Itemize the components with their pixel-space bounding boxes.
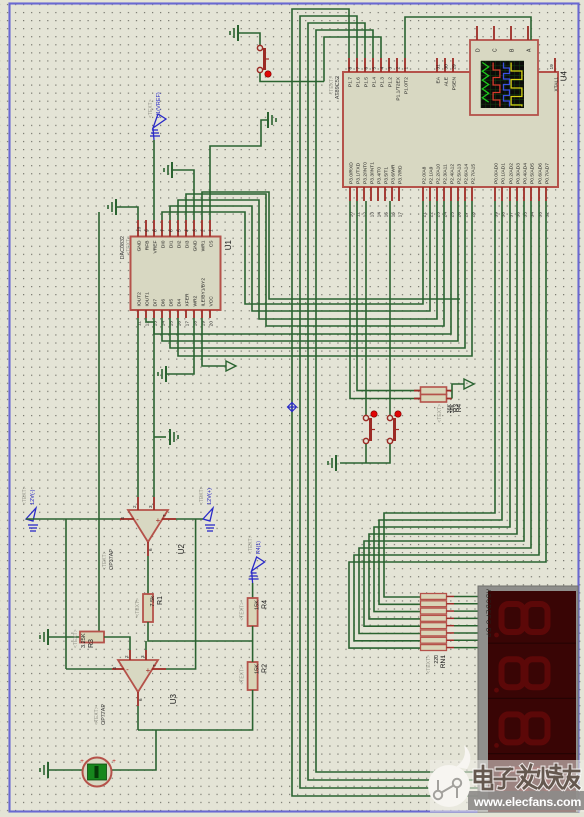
svg-text:P3.4/T0: P3.4/T0 — [376, 167, 382, 184]
wire U1 DI bottom pin x=154 to U4 P2 x=451 — [154, 201, 451, 334]
svg-text:<TEXT>: <TEXT> — [22, 486, 28, 505]
U3 pin 7 stub — [152, 668, 166, 670]
svg-text:23: 23 — [435, 212, 441, 218]
wire U1 DI top pin x=178 to U4 P2 x=437 — [178, 200, 437, 319]
svg-text:7: 7 — [152, 664, 157, 667]
svg-text:12V(+): 12V(+) — [207, 488, 213, 505]
svg-text:P1.7: P1.7 — [347, 77, 353, 87]
svg-text:<TEXT>: <TEXT> — [240, 602, 246, 621]
wire U1 pin19 to arrow terminal — [202, 318, 226, 366]
wire U2 pin7 to 12V(+) — [176, 518, 203, 520]
wire 12V(-) to U2 pin4 — [26, 518, 120, 520]
wire U1 DI top pin x=186 to U4 P2 x=444 — [186, 194, 444, 326]
wire U4 P0.7 to RN1 resistor 8 — [349, 201, 546, 648]
wire negative rail down to U3 pin4 — [65, 519, 67, 669]
svg-text:5: 5 — [371, 67, 377, 70]
wire R2 to U3 output — [138, 690, 253, 730]
U4 pin 6 (P1.5) stub — [364, 58, 366, 72]
svg-text:3: 3 — [192, 229, 198, 232]
wire battery+ riser — [112, 730, 157, 770]
wire U1 DI top pin x=170 to U4 P2 x=430 — [170, 201, 430, 311]
svg-text:WR2: WR2 — [192, 295, 198, 306]
svg-text:U3: U3 — [169, 693, 178, 704]
U4 pin 11 (P3.1/TXD) stub — [356, 187, 358, 201]
U1 pin 5 (DI2) stub — [177, 220, 179, 237]
wire U1 DI top pin x=162 to U4 P2 x=423 — [162, 201, 423, 304]
microcontroller U4 body (AT89C52) — [343, 72, 558, 187]
U4 pin 31 (EA) stub — [436, 58, 438, 72]
svg-text:8: 8 — [347, 67, 353, 70]
svg-text:4: 4 — [379, 67, 385, 70]
svg-text:U2: U2 — [177, 543, 186, 554]
U3 pin 4 stub — [112, 668, 124, 670]
svg-text:25: 25 — [449, 212, 455, 218]
wire vertical x99 — [98, 212, 100, 637]
U4 pin 29 (PSEN) stub — [452, 58, 454, 72]
svg-text:P1.0/T2: P1.0/T2 — [403, 77, 409, 94]
svg-text:<TEXT>: <TEXT> — [329, 76, 335, 95]
wire P3.0 to resistor R6 — [350, 201, 421, 399]
svg-text:P1.2: P1.2 — [387, 77, 393, 87]
U4 pin 36 (P0.3/AD3) stub — [516, 187, 518, 201]
display pin stub 2 — [478, 603, 487, 605]
oscilloscope channel B pin stub — [510, 26, 512, 40]
oscilloscope channel C pin stub — [493, 26, 495, 40]
RN1 resistor element 7 — [421, 637, 447, 643]
svg-text:15: 15 — [383, 212, 389, 218]
svg-text:ABCDEFG DP: ABCDEFG DP — [485, 589, 492, 638]
wire U4 P1.5 long bus column x308 — [308, 23, 478, 780]
svg-text:P2.5/A13: P2.5/A13 — [456, 164, 462, 184]
wire U4 P1.6 long bus column x300 — [300, 16, 478, 788]
wire G6 to U1 pin18 — [166, 318, 194, 374]
wire U1 pin2 WR1 route — [202, 192, 460, 299]
svg-text:7: 7 — [160, 229, 166, 232]
svg-text:P3.0/RXD: P3.0/RXD — [348, 162, 354, 184]
svg-text:36K: 36K — [450, 403, 456, 413]
wire node row to R2 — [252, 641, 254, 662]
ground G5 — [170, 429, 178, 445]
display digit digit 4 — [502, 770, 524, 798]
U2 pin 6 stub — [147, 542, 149, 556]
svg-text:8: 8 — [152, 229, 158, 232]
oscilloscope channel A pin stub — [527, 26, 529, 40]
wire R3 to U3 pin2 — [104, 637, 130, 650]
oscilloscope trace yellow channel A — [511, 63, 522, 107]
resistor R6 — [421, 395, 447, 403]
U4 pin 35 (P0.4/AD4) stub — [523, 187, 525, 201]
svg-text:DI6: DI6 — [160, 299, 166, 307]
svg-text:R4(1): R4(1) — [256, 541, 262, 554]
U1 pin 20 (VCC) stub — [209, 310, 211, 318]
watermark chinese text 电子发烧友 — [475, 765, 579, 789]
wire P3.6 to button B3 — [389, 201, 391, 415]
svg-text:DI2: DI2 — [176, 240, 182, 248]
U4 pin 1 (P1.0/T2) stub — [404, 58, 406, 72]
svg-text:7: 7 — [355, 67, 361, 70]
U1 pin 16 (DI4) stub — [177, 310, 179, 318]
svg-text:P2.2/A10: P2.2/A10 — [435, 164, 441, 184]
svg-text:P2.6/A14: P2.6/A14 — [463, 164, 469, 184]
ground G8 — [40, 629, 48, 645]
svg-text:7: 7 — [162, 514, 167, 517]
wire RN1 element 5 to display — [454, 625, 478, 627]
svg-text:RFB: RFB — [144, 241, 150, 251]
wire G9 to battery — [48, 769, 83, 771]
resistor R2 — [248, 662, 258, 690]
svg-text:C: C — [492, 48, 498, 52]
svg-text:14: 14 — [376, 212, 382, 218]
svg-text:1: 1 — [208, 229, 214, 232]
wire P3.2 to button B2 — [365, 201, 367, 415]
svg-text:<TEXT>: <TEXT> — [240, 666, 246, 685]
U1 pin 10 (GND) stub — [137, 220, 139, 237]
svg-text:+: + — [156, 516, 161, 525]
svg-text:4: 4 — [120, 517, 125, 520]
svg-text:3: 3 — [387, 67, 393, 70]
U2 pin 4 stub — [120, 518, 134, 520]
U4 pin 39 (P0.0/AD0) stub — [494, 187, 496, 201]
output arrow terminal A1 — [226, 361, 236, 371]
op-amp U3 body — [118, 660, 158, 692]
RN1 resistor element 2 — [421, 601, 447, 607]
svg-text:24: 24 — [442, 212, 448, 218]
svg-text:U4: U4 — [560, 70, 569, 81]
display digit separator — [488, 753, 576, 755]
svg-text:<TEXT>: <TEXT> — [102, 551, 108, 570]
U1 pin 15 (DI5) stub — [169, 310, 171, 318]
U4 pin 15 (P3.5/T1) stub — [384, 187, 386, 201]
svg-text:P0.7/AD7: P0.7/AD7 — [544, 163, 550, 184]
svg-text:37: 37 — [508, 212, 514, 218]
wire U2 out to R1 — [147, 556, 149, 594]
wire U4 P1.7 long bus column x292 — [292, 9, 478, 796]
svg-text:2: 2 — [395, 67, 401, 70]
svg-text:P0.2/AD2: P0.2/AD2 — [508, 163, 514, 184]
wire U1 DI bottom pin x=162 to U4 P2 x=458 — [162, 201, 458, 341]
svg-text:-: - — [136, 515, 139, 524]
U4 pin 17 (P3.7/RD) stub — [398, 187, 400, 201]
U1 pin 3 (GND) stub — [193, 220, 195, 237]
svg-text:26: 26 — [456, 212, 462, 218]
7-segment display panel — [488, 591, 576, 812]
svg-text:+: + — [112, 758, 116, 765]
svg-text:7.5k: 7.5k — [150, 596, 156, 607]
svg-text:2: 2 — [200, 229, 206, 232]
svg-text:ILE/BY1/BY2: ILE/BY1/BY2 — [200, 278, 206, 307]
display digit separator — [488, 697, 576, 699]
RN1 resistor element 5 — [421, 623, 447, 629]
U2 pin 3 stub — [153, 497, 155, 510]
power terminal 12V(-) — [26, 508, 38, 531]
wire RN1 element 2 to display — [454, 603, 478, 605]
svg-text:10: 10 — [136, 226, 142, 232]
push button B3 — [387, 415, 399, 443]
wire G4 to U1 pin3 — [172, 170, 194, 220]
U4 pin 34 (P0.5/AD5) stub — [530, 187, 532, 201]
svg-text:27: 27 — [463, 212, 469, 218]
svg-text:+: + — [80, 758, 84, 765]
svg-text:R4: R4 — [456, 404, 463, 413]
svg-text:P1.6: P1.6 — [355, 77, 361, 87]
U1 pin 11 (IOUT2) stub — [137, 310, 139, 318]
svg-text:P0.1/AD1: P0.1/AD1 — [500, 163, 506, 184]
svg-text:<TEXT>: <TEXT> — [248, 535, 254, 554]
svg-text:<TEXT>: <TEXT> — [135, 598, 141, 617]
U4 pin 3 (P1.2) stub — [388, 58, 390, 72]
display digit digit 2 — [502, 659, 524, 687]
U4 pin 37 (P0.2/AD2) stub — [509, 187, 511, 201]
wire ground G2 to U1 pin1 — [210, 120, 268, 220]
svg-text:6: 6 — [168, 229, 174, 232]
R5 right lead — [447, 390, 453, 392]
7-segment display module frame — [478, 586, 578, 812]
wire U4 P1.4 long bus column x316 — [316, 30, 478, 772]
battery voltage source BAT1 — [83, 758, 112, 787]
wire U4 P0.4 to RN1 resistor 5 — [364, 201, 524, 626]
U1 pin 7 (DI0) stub — [161, 220, 163, 237]
svg-text:IOUT1: IOUT1 — [144, 292, 150, 307]
svg-text:6: 6 — [138, 698, 143, 701]
svg-text:AT89C52: AT89C52 — [335, 76, 341, 99]
wire U1 pin11 to U2 pin2 — [137, 318, 139, 497]
U1 pin 6 (DI1) stub — [169, 220, 171, 237]
svg-text:RN1: RN1 — [440, 655, 447, 669]
wire P3.1 to resistor R5 — [357, 201, 421, 391]
wire U4 P0.3 to RN1 resistor 4 — [369, 201, 517, 619]
U4 pin 5 (P1.4) stub — [372, 58, 374, 72]
svg-text:21: 21 — [421, 212, 427, 218]
svg-text:3: 3 — [148, 505, 153, 508]
U1 pin 18 (WR2) stub — [193, 310, 195, 318]
wire RN1 element 6 to display — [454, 632, 478, 634]
svg-text:P2.0/A8: P2.0/A8 — [421, 166, 427, 184]
R5 left lead — [414, 390, 421, 392]
svg-text:<TEXT>: <TEXT> — [148, 99, 154, 118]
wire U4 P0.6 to RN1 resistor 7 — [354, 201, 539, 641]
resistor R1 — [143, 594, 153, 622]
wire T3 to R4 — [252, 583, 254, 598]
svg-text:P1.4: P1.4 — [371, 77, 377, 87]
RN1 element 1 right lead — [447, 595, 455, 597]
blue node marker — [288, 403, 297, 412]
resistor R3 — [80, 632, 104, 643]
svg-text:13: 13 — [369, 212, 375, 218]
svg-text:GND: GND — [136, 240, 142, 251]
U1 pin 4 (DI3) stub — [185, 220, 187, 237]
oscilloscope trace green channel D — [482, 63, 488, 103]
U1 pin 2 (WR1) stub — [201, 220, 203, 237]
RN1 resistor element 3 — [421, 608, 447, 614]
svg-text:P2.1/A9: P2.1/A9 — [428, 166, 434, 184]
svg-text:VCC: VCC — [208, 296, 214, 307]
svg-text:R2: R2 — [262, 664, 269, 673]
U3 pin 2 stub — [129, 650, 131, 660]
svg-text:5: 5 — [176, 229, 182, 232]
U1 pin 9 (RFB) stub — [145, 220, 147, 237]
U4 pin 10 (P3.0/RXD) stub — [349, 187, 351, 201]
U1 pin 19 (ILE/BY1/BY2) stub — [201, 310, 203, 318]
svg-text:R4: R4 — [262, 600, 269, 609]
svg-text:38: 38 — [500, 212, 506, 218]
RN1 element 6 right lead — [447, 632, 455, 634]
wire button B1 to bus — [260, 73, 324, 82]
U1 pin 17 (XFER) stub — [185, 310, 187, 318]
svg-text:17: 17 — [397, 212, 403, 218]
svg-text:P0.3/AD3: P0.3/AD3 — [515, 163, 521, 184]
svg-text:1: 1 — [403, 67, 409, 70]
svg-text:220: 220 — [434, 655, 440, 664]
U4 pin 26 (P2.5/A13) stub — [457, 187, 459, 201]
svg-text:R1: R1 — [157, 596, 164, 605]
svg-text:28: 28 — [470, 212, 476, 218]
svg-text:ALE: ALE — [443, 76, 449, 86]
RN1 element 5 right lead — [447, 625, 455, 627]
resistor R5 — [421, 387, 447, 395]
wire R5 R6 to arrow — [452, 384, 464, 399]
display digit digit 3 — [502, 714, 524, 742]
svg-text:R3: R3 — [88, 639, 95, 648]
svg-text:D: D — [475, 48, 481, 52]
svg-text:<TEXT>: <TEXT> — [437, 404, 443, 423]
svg-text:WR1: WR1 — [200, 240, 206, 251]
svg-text:PSEN: PSEN — [451, 77, 457, 91]
display pin stub 4 — [478, 617, 487, 619]
svg-text:2: 2 — [132, 505, 137, 508]
RN1 resistor element 1 — [421, 594, 447, 600]
wire button B3 common to ground — [340, 444, 390, 463]
svg-text:P3.1/TXD: P3.1/TXD — [355, 162, 361, 184]
svg-text:4: 4 — [184, 229, 190, 232]
terminal T4 at U1 VREF — [150, 114, 166, 140]
svg-text:P1.3: P1.3 — [379, 77, 385, 87]
svg-text:DI4: DI4 — [176, 299, 182, 307]
U4 pin 24 (P2.3/A11) stub — [443, 187, 445, 201]
svg-text:P1.5: P1.5 — [363, 77, 369, 87]
display digit digit 1 — [502, 604, 524, 632]
svg-text:20: 20 — [208, 321, 214, 327]
U1 pin 1 (CS) stub — [209, 220, 211, 237]
display pin stub 5 — [478, 625, 487, 627]
wire U3 out down — [137, 706, 139, 730]
RN1 element 3 right lead — [447, 610, 455, 612]
wire branch to ground G5 — [154, 436, 166, 438]
wire RN1 element 8 to display — [454, 647, 478, 649]
svg-text:2: 2 — [124, 655, 129, 658]
svg-text:OP77AP: OP77AP — [101, 704, 107, 725]
U1 pin 12 (IOUT1) stub — [145, 310, 147, 318]
svg-text:XFER: XFER — [184, 293, 190, 307]
U4 pin 4 (P1.3) stub — [380, 58, 382, 72]
svg-text:6: 6 — [363, 67, 369, 70]
DAC U1 body (DAC0832) — [131, 237, 221, 311]
U4 pin 33 (P0.6/AD6) stub — [538, 187, 540, 201]
wire ground G1 to button B1 — [238, 33, 260, 45]
U3 pin 6 stub — [137, 692, 139, 706]
svg-text:15K: 15K — [255, 600, 261, 610]
U1 pin 8 (VREF) stub — [153, 220, 155, 237]
U4 pin 12 (P3.2/INT0) stub — [363, 187, 365, 201]
svg-text:P0.4/AD4: P0.4/AD4 — [522, 163, 528, 184]
display pin stub 1 — [478, 595, 487, 597]
svg-text:GND: GND — [192, 240, 198, 251]
svg-text:<TEXT>: <TEXT> — [126, 236, 132, 255]
oscilloscope channel D pin stub — [476, 26, 478, 40]
svg-text:<TEXT>: <TEXT> — [199, 486, 205, 505]
svg-text:P2.7/A15: P2.7/A15 — [470, 164, 476, 184]
resistor R4 — [248, 598, 258, 626]
svg-text:EA: EA — [435, 76, 441, 83]
U4 pin 27 (P2.6/A14) stub — [464, 187, 466, 201]
svg-text:16: 16 — [390, 212, 396, 218]
svg-text:P3.6/WR: P3.6/WR — [390, 164, 396, 184]
wire RN1 element 1 to display — [454, 596, 478, 598]
output arrow terminal A2 — [464, 379, 474, 389]
oscilloscope screen — [481, 61, 524, 108]
wire U1 DI bottom pin x=178 to U4 P2 x=472 — [178, 201, 472, 356]
svg-text:<TEXT>: <TEXT> — [73, 629, 79, 648]
svg-text:30: 30 — [443, 64, 449, 70]
RN1 resistor element 4 — [421, 615, 447, 621]
svg-text:P2.3/A11: P2.3/A11 — [442, 164, 448, 184]
svg-text:3.25K: 3.25K — [81, 633, 87, 648]
svg-text:P1.1/T2EX: P1.1/T2EX — [395, 76, 401, 100]
watermark backdrop — [430, 760, 584, 812]
svg-text:P3.5/T1: P3.5/T1 — [383, 167, 389, 184]
oscilloscope body — [470, 40, 538, 115]
RN1 resistor element 6 — [421, 630, 447, 636]
terminal T3 R4(1) — [249, 557, 265, 583]
svg-text:VREF: VREF — [152, 240, 158, 253]
svg-text:29: 29 — [451, 64, 457, 70]
wire U4 P0.0 to RN1 resistor 1 — [384, 201, 495, 597]
svg-text:17: 17 — [184, 321, 190, 327]
U4 pin 13 (P3.3/INT1) stub — [370, 187, 372, 201]
display pin stub 6 — [478, 632, 487, 634]
svg-text:+: + — [146, 666, 151, 675]
U3 pin 3 stub — [145, 650, 147, 660]
U2 pin 2 stub — [137, 497, 139, 510]
U4 pin 30 (ALE) stub — [444, 58, 446, 72]
U4 pin 7 (P1.6) stub — [356, 58, 358, 72]
U4 pin 21 (P2.0/A8) stub — [422, 187, 424, 201]
svg-text:11: 11 — [355, 212, 361, 217]
svg-text:U1(VREF): U1(VREF) — [156, 92, 162, 118]
wire U1 pin12 to U2 pin3 — [146, 318, 154, 497]
svg-text:15K: 15K — [255, 664, 261, 674]
svg-text:-: - — [126, 665, 129, 674]
svg-text:OP37AP: OP37AP — [109, 549, 115, 570]
RN1 element 8 right lead — [447, 647, 455, 649]
svg-text:22: 22 — [428, 212, 434, 218]
svg-text:P2.4/A12: P2.4/A12 — [449, 164, 455, 184]
wire button B2 to common — [365, 444, 367, 463]
svg-text:P0.5/AD5: P0.5/AD5 — [529, 163, 535, 184]
svg-text:39: 39 — [493, 212, 499, 218]
wire RN1 element 7 to display — [454, 639, 478, 641]
push button B2 — [363, 415, 375, 443]
ground G4 U1 AGND pin3 — [164, 162, 172, 178]
svg-text:DI0: DI0 — [160, 240, 166, 248]
svg-text:DI5: DI5 — [168, 299, 174, 307]
svg-text:DI3: DI3 — [184, 240, 190, 248]
power terminal 12V(+) — [203, 508, 215, 531]
watermark logo — [428, 745, 470, 807]
svg-text:P0.0/AD0: P0.0/AD0 — [493, 163, 499, 184]
svg-text:U1: U1 — [224, 239, 233, 250]
svg-text:12V(-): 12V(-) — [30, 489, 36, 505]
oscilloscope trace blue channel B — [504, 63, 510, 107]
